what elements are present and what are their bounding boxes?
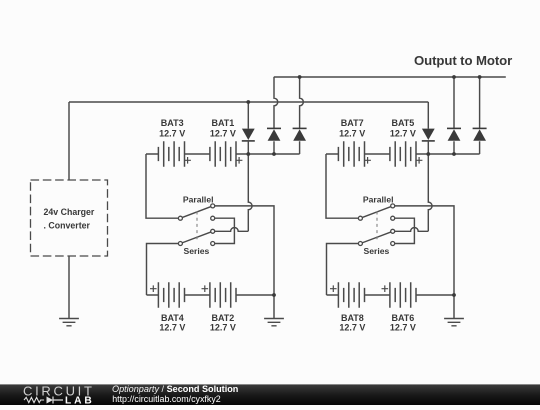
svg-text:Series: Series bbox=[183, 246, 209, 256]
svg-text:24v Charger: 24v Charger bbox=[44, 207, 95, 217]
svg-text:BAT6: BAT6 bbox=[391, 313, 414, 323]
svg-text:BAT8: BAT8 bbox=[341, 313, 364, 323]
svg-text:. Converter: . Converter bbox=[44, 220, 91, 230]
svg-text:12.7 V: 12.7 V bbox=[159, 129, 185, 139]
svg-text:BAT5: BAT5 bbox=[391, 118, 414, 128]
svg-text:BAT7: BAT7 bbox=[341, 118, 364, 128]
svg-text:12.7 V: 12.7 V bbox=[210, 323, 236, 333]
svg-text:BAT1: BAT1 bbox=[211, 118, 234, 128]
svg-text:Optionparty / Second Solution: Optionparty / Second Solution bbox=[112, 384, 238, 394]
svg-text:LAB: LAB bbox=[65, 395, 95, 405]
svg-text:12.7 V: 12.7 V bbox=[339, 323, 365, 333]
svg-text:12.7 V: 12.7 V bbox=[390, 129, 416, 139]
svg-text:12.7 V: 12.7 V bbox=[159, 323, 185, 333]
svg-text:Parallel: Parallel bbox=[183, 194, 214, 204]
svg-text:BAT4: BAT4 bbox=[161, 313, 184, 323]
svg-text:Series: Series bbox=[363, 246, 389, 256]
svg-text:http://circuitlab.com/cyxfky2: http://circuitlab.com/cyxfky2 bbox=[112, 394, 221, 404]
svg-text:BAT2: BAT2 bbox=[211, 313, 234, 323]
svg-text:Output to Motor: Output to Motor bbox=[414, 53, 512, 68]
svg-text:12.7 V: 12.7 V bbox=[339, 129, 365, 139]
svg-text:12.7 V: 12.7 V bbox=[210, 129, 236, 139]
svg-text:12.7 V: 12.7 V bbox=[390, 323, 416, 333]
svg-text:Parallel: Parallel bbox=[363, 194, 394, 204]
svg-text:BAT3: BAT3 bbox=[161, 118, 184, 128]
